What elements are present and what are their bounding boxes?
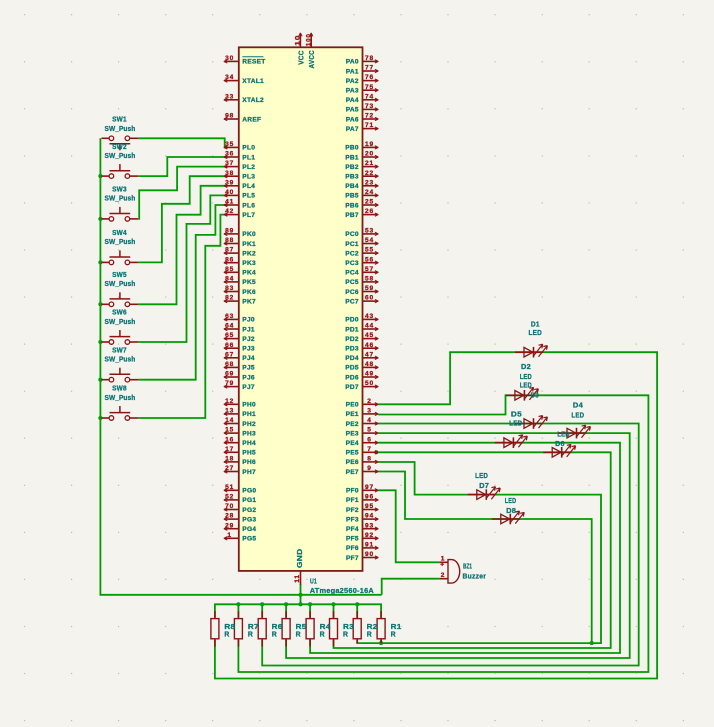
pin 46 (PD3) right xyxy=(363,347,378,349)
svg-text:PE0: PE0 xyxy=(346,402,359,409)
svg-text:SW6: SW6 xyxy=(112,308,127,317)
svg-text:D5: D5 xyxy=(511,410,522,419)
svg-text:PK0: PK0 xyxy=(242,231,256,238)
svg-text:PA2: PA2 xyxy=(346,78,359,85)
switch SW5 SW_Push xyxy=(102,270,139,307)
svg-text:PJ6: PJ6 xyxy=(242,374,255,381)
svg-text:2: 2 xyxy=(367,398,371,405)
pin 57 (PC4) right xyxy=(363,271,378,273)
wire SW6 to PL5 (pin 40) xyxy=(138,195,228,342)
pin 82 (PK7) left xyxy=(225,300,239,302)
pin 96 (PF1) right xyxy=(363,499,378,501)
wire PE6 (pin 8) to D7 to R2/R1 line xyxy=(357,462,601,643)
pin 66 (PJ3) left xyxy=(225,347,239,349)
svg-text:PK4: PK4 xyxy=(242,270,256,277)
LED D6 xyxy=(543,429,575,457)
svg-text:PB1: PB1 xyxy=(345,154,359,161)
svg-text:LED: LED xyxy=(529,328,543,337)
svg-text:PF5: PF5 xyxy=(346,536,359,543)
pin 67 (PJ4) left xyxy=(225,357,239,359)
svg-text:PJ1: PJ1 xyxy=(242,326,255,333)
svg-text:PK6: PK6 xyxy=(242,289,256,296)
LED D7 xyxy=(468,471,500,500)
wire PE0 (pin 2) to D1 to R8 xyxy=(215,352,657,678)
pin 17 (PH5) left xyxy=(225,451,239,453)
svg-text:64: 64 xyxy=(225,323,234,330)
svg-text:PB4: PB4 xyxy=(345,183,359,190)
svg-text:12: 12 xyxy=(225,398,234,405)
pin 13 (PH1) left xyxy=(225,413,239,415)
svg-text:PE3: PE3 xyxy=(346,430,359,437)
svg-text:PB0: PB0 xyxy=(345,145,359,152)
pin 35 (PL0) left xyxy=(225,146,239,148)
svg-text:72: 72 xyxy=(365,113,374,120)
wire PF0 (pin 97) to buzzer pin 1 xyxy=(378,490,439,562)
svg-text:PF6: PF6 xyxy=(346,545,359,552)
pin 45 (PD2) right xyxy=(363,338,378,340)
svg-text:55: 55 xyxy=(365,247,374,254)
pin 98 (AREF) left xyxy=(225,118,239,120)
svg-text:PF1: PF1 xyxy=(346,497,359,504)
svg-text:78: 78 xyxy=(365,55,374,62)
svg-text:5: 5 xyxy=(367,427,371,434)
svg-text:D2: D2 xyxy=(521,362,531,371)
svg-text:37: 37 xyxy=(225,160,234,167)
svg-text:PL0: PL0 xyxy=(242,145,255,152)
pin 65 (PJ2) left xyxy=(225,338,239,340)
resistor R7 xyxy=(234,611,258,647)
svg-text:PL3: PL3 xyxy=(242,174,255,181)
resistor R5 xyxy=(282,611,306,647)
svg-text:VCC: VCC xyxy=(299,50,306,65)
pin 3 (PE1) right xyxy=(363,413,378,415)
svg-text:68: 68 xyxy=(225,361,234,368)
wire resistor top lead x=333.5 xyxy=(333,604,335,617)
svg-text:SW_Push: SW_Push xyxy=(105,237,136,246)
LED D2 xyxy=(506,362,538,401)
pin 85 (PK4) left xyxy=(225,271,239,273)
pin 76 (PA2) right xyxy=(363,80,378,82)
svg-text:56: 56 xyxy=(365,256,374,263)
svg-text:PB5: PB5 xyxy=(345,193,359,200)
svg-text:D6: D6 xyxy=(555,439,565,448)
pin 83 (PK6) left xyxy=(225,291,239,293)
pin 26 (PB7) right xyxy=(363,214,378,216)
svg-text:65: 65 xyxy=(225,332,234,339)
pin 78 (PA0) right xyxy=(363,60,378,62)
svg-text:LED: LED xyxy=(509,419,523,428)
svg-text:3: 3 xyxy=(367,408,371,415)
svg-text:PA3: PA3 xyxy=(346,88,359,95)
svg-text:PA7: PA7 xyxy=(346,126,359,133)
svg-text:35: 35 xyxy=(225,141,234,148)
svg-text:41: 41 xyxy=(225,199,234,206)
wire resistor top lead x=357.2 xyxy=(356,604,358,617)
pin 22 (PB3) right xyxy=(363,175,378,177)
svg-text:PH6: PH6 xyxy=(242,459,256,466)
svg-text:SW3: SW3 xyxy=(112,185,127,194)
svg-text:58: 58 xyxy=(365,276,374,283)
pin 64 (PJ1) left xyxy=(225,328,239,330)
svg-text:77: 77 xyxy=(365,65,374,72)
svg-text:PJ0: PJ0 xyxy=(242,317,255,324)
svg-text:PC4: PC4 xyxy=(345,270,359,277)
svg-text:PD5: PD5 xyxy=(345,365,359,372)
wire R1 bottom tap xyxy=(380,640,382,643)
pin 42 (PL7) left xyxy=(225,214,239,216)
pin 55 (PC2) right xyxy=(363,252,378,254)
pin 58 (PC5) right xyxy=(363,281,378,283)
svg-text:PD1: PD1 xyxy=(345,326,359,333)
svg-text:49: 49 xyxy=(365,371,374,378)
pin 27 (PH7) left xyxy=(225,471,239,473)
svg-text:SW5: SW5 xyxy=(112,270,127,279)
pin 68 (PJ5) left xyxy=(225,366,239,368)
wire resistor top lead x=286.1 xyxy=(285,604,287,617)
svg-text:XTAL1: XTAL1 xyxy=(242,78,264,85)
svg-text:PA6: PA6 xyxy=(346,116,359,123)
pin 20 (PB1) right xyxy=(363,156,378,158)
svg-text:94: 94 xyxy=(365,513,374,520)
svg-text:PB7: PB7 xyxy=(345,212,359,219)
svg-text:PB2: PB2 xyxy=(345,164,359,171)
svg-text:2: 2 xyxy=(441,572,445,579)
pin 34 (XTAL1) left xyxy=(225,80,239,82)
pin 37 (PL2) left xyxy=(225,166,239,168)
svg-text:R: R xyxy=(367,629,373,638)
pin 5 (PE3) right xyxy=(363,432,378,434)
switch SW7 SW_Push xyxy=(102,345,139,382)
svg-text:74: 74 xyxy=(365,93,374,100)
svg-text:PB6: PB6 xyxy=(345,202,359,209)
svg-text:98: 98 xyxy=(225,113,234,120)
svg-text:LED: LED xyxy=(557,429,570,438)
svg-text:43: 43 xyxy=(365,313,374,320)
svg-text:59: 59 xyxy=(365,285,374,292)
svg-text:84: 84 xyxy=(225,276,234,283)
wire PE1 (pin 3) to D2 to R7 xyxy=(238,395,648,672)
switch SW3 SW_Push xyxy=(102,185,139,222)
LED D4 xyxy=(558,400,590,438)
svg-text:73: 73 xyxy=(365,103,374,110)
svg-text:PL7: PL7 xyxy=(242,212,255,219)
svg-text:PA1: PA1 xyxy=(346,68,359,75)
resistor R4 xyxy=(306,611,331,647)
wire SW1 to PL0 (pin 35) xyxy=(138,138,228,147)
svg-text:17: 17 xyxy=(225,446,234,453)
pin 28 (PG3) left xyxy=(225,518,239,520)
svg-text:PL6: PL6 xyxy=(242,202,255,209)
svg-text:PE1: PE1 xyxy=(346,411,359,418)
svg-text:67: 67 xyxy=(225,351,234,358)
svg-text:PF0: PF0 xyxy=(346,488,359,495)
svg-text:PE2: PE2 xyxy=(346,421,359,428)
svg-text:PH1: PH1 xyxy=(242,411,256,418)
svg-text:8: 8 xyxy=(367,456,371,463)
svg-text:PF7: PF7 xyxy=(346,555,359,562)
svg-text:PD6: PD6 xyxy=(345,374,359,381)
pin 63 (PJ0) left xyxy=(225,318,239,320)
svg-text:R: R xyxy=(272,629,278,638)
svg-text:LED: LED xyxy=(520,381,533,390)
wire SW8 to PL7 (pin 42) xyxy=(138,215,228,418)
svg-text:9: 9 xyxy=(367,465,371,472)
svg-text:PJ3: PJ3 xyxy=(242,346,255,353)
wire SW4 to PL3 (pin 38) xyxy=(138,176,228,262)
svg-text:PC0: PC0 xyxy=(345,231,359,238)
svg-text:PJ2: PJ2 xyxy=(242,336,255,343)
svg-text:U1: U1 xyxy=(310,577,317,586)
svg-text:PE6: PE6 xyxy=(346,459,359,466)
pin 6 (PE4) right xyxy=(363,442,378,444)
svg-text:86: 86 xyxy=(225,256,234,263)
svg-text:PE5: PE5 xyxy=(346,450,359,457)
pin 14 (PH2) left xyxy=(225,423,239,425)
svg-text:92: 92 xyxy=(365,532,374,539)
svg-text:PK2: PK2 xyxy=(242,250,256,257)
svg-text:D7: D7 xyxy=(479,481,489,490)
svg-text:71: 71 xyxy=(365,122,374,129)
svg-text:18: 18 xyxy=(225,456,234,463)
pin 70 (PG2) left xyxy=(225,509,239,511)
svg-text:PE4: PE4 xyxy=(346,440,359,447)
svg-text:97: 97 xyxy=(365,484,374,491)
svg-text:66: 66 xyxy=(225,342,234,349)
pin 56 (PC3) right xyxy=(363,262,378,264)
pin 90 (PF7) right xyxy=(363,557,378,559)
wire PE2 (pin 4) to D5 to R6 xyxy=(262,424,639,666)
svg-text:57: 57 xyxy=(365,266,374,273)
svg-text:PK7: PK7 xyxy=(242,298,256,305)
svg-text:PC7: PC7 xyxy=(345,298,359,305)
svg-text:PH7: PH7 xyxy=(242,469,256,476)
svg-text:PG0: PG0 xyxy=(242,488,256,495)
wire resistor top lead x=310.1 xyxy=(309,604,311,617)
svg-text:83: 83 xyxy=(225,285,234,292)
pin 87 (PK2) left xyxy=(225,252,239,254)
svg-text:PA5: PA5 xyxy=(346,107,359,114)
svg-text:PD7: PD7 xyxy=(345,384,359,391)
pin 4 (PE2) right xyxy=(363,423,378,425)
LED D5 xyxy=(509,410,547,429)
LED D1 xyxy=(515,319,547,357)
svg-text:7: 7 xyxy=(367,446,371,453)
pin 38 (PL3) left xyxy=(225,175,239,177)
pin 74 (PA4) right xyxy=(363,99,378,101)
pin 41 (PL6) left xyxy=(225,204,239,206)
pin 2 (PE0) right xyxy=(363,403,378,405)
svg-text:26: 26 xyxy=(365,208,374,215)
wire resistor top lead x=238.4 xyxy=(237,604,239,617)
svg-text:SW_Push: SW_Push xyxy=(105,124,136,133)
svg-text:70: 70 xyxy=(225,503,234,510)
svg-text:15: 15 xyxy=(225,427,234,434)
svg-text:AREF: AREF xyxy=(242,116,261,123)
svg-text:75: 75 xyxy=(365,84,374,91)
pin 48 (PD5) right xyxy=(363,366,378,368)
pin 50 (PD7) right xyxy=(363,386,378,388)
svg-text:6: 6 xyxy=(367,436,371,443)
pin 72 (PA6) right xyxy=(363,118,378,120)
pin 44 (PD1) right xyxy=(363,328,378,330)
svg-text:69: 69 xyxy=(225,371,234,378)
pin 15 (PH3) left xyxy=(225,432,239,434)
svg-text:D4: D4 xyxy=(573,400,584,409)
pin 33 (XTAL2) left xyxy=(225,99,239,101)
wire GND pin to resistor bus xyxy=(300,584,302,604)
svg-text:LED: LED xyxy=(505,496,517,505)
svg-text:22: 22 xyxy=(365,170,374,177)
pin 36 (PL1) left xyxy=(225,156,239,158)
pin 59 (PC6) right xyxy=(363,291,378,293)
svg-text:PH3: PH3 xyxy=(242,430,256,437)
svg-text:R: R xyxy=(248,629,254,638)
svg-text:D3: D3 xyxy=(531,390,539,399)
svg-text:20: 20 xyxy=(365,151,374,158)
svg-text:LED: LED xyxy=(571,410,584,419)
svg-text:RESET: RESET xyxy=(242,59,265,66)
svg-text:93: 93 xyxy=(365,522,374,529)
svg-text:79: 79 xyxy=(225,380,234,387)
svg-text:40: 40 xyxy=(225,189,234,196)
svg-text:AVCC: AVCC xyxy=(309,50,316,69)
svg-text:PC2: PC2 xyxy=(345,250,359,257)
svg-text:11: 11 xyxy=(294,574,301,583)
pin 92 (PF5) right xyxy=(363,537,378,539)
svg-text:SW_Push: SW_Push xyxy=(105,279,136,288)
svg-text:SW_Push: SW_Push xyxy=(105,194,136,203)
svg-text:PG1: PG1 xyxy=(242,497,256,504)
svg-text:XTAL2: XTAL2 xyxy=(242,97,264,104)
svg-text:R: R xyxy=(296,629,302,638)
svg-text:13: 13 xyxy=(225,408,234,415)
buzzer BZ1 xyxy=(439,556,486,583)
wire buzzer pin2 to GND line xyxy=(382,579,440,595)
svg-text:PE7: PE7 xyxy=(346,469,359,476)
svg-text:PD2: PD2 xyxy=(345,336,359,343)
pin 47 (PD4) right xyxy=(363,357,378,359)
junction dots xyxy=(98,174,102,178)
LED D3 xyxy=(495,435,527,448)
svg-text:PD3: PD3 xyxy=(345,346,359,353)
svg-text:50: 50 xyxy=(365,380,374,387)
pin 97 (PF0) right xyxy=(363,489,378,491)
svg-text:PG4: PG4 xyxy=(242,526,256,533)
svg-text:36: 36 xyxy=(225,151,234,158)
svg-text:PL5: PL5 xyxy=(242,193,255,200)
wire PE3 (pin 5) to D4 to R5 xyxy=(286,433,630,658)
switch SW4 SW_Push xyxy=(102,228,139,265)
svg-text:LED: LED xyxy=(475,471,488,480)
svg-text:R: R xyxy=(343,629,349,638)
switch SW8 SW_Push xyxy=(102,384,139,421)
svg-text:53: 53 xyxy=(365,228,374,235)
svg-text:89: 89 xyxy=(225,228,234,235)
pin 93 (PF4) right xyxy=(363,528,378,530)
svg-text:R: R xyxy=(391,629,397,638)
svg-text:87: 87 xyxy=(225,247,234,254)
svg-text:PL2: PL2 xyxy=(242,164,255,171)
svg-text:44: 44 xyxy=(365,323,374,330)
pin 88 (PK1) left xyxy=(225,243,239,245)
pin 73 (PA5) right xyxy=(363,108,378,110)
svg-text:ATmega2560-16A: ATmega2560-16A xyxy=(310,586,375,595)
svg-text:PD0: PD0 xyxy=(345,317,359,324)
svg-text:34: 34 xyxy=(225,74,234,81)
wire SW2 to PL1 (pin 36) xyxy=(138,157,228,176)
resistor R1 xyxy=(377,611,401,643)
svg-text:63: 63 xyxy=(225,313,234,320)
wire PE4 (pin 6) to D3 to R4 xyxy=(310,443,620,653)
pin 8 (PE6) right xyxy=(363,461,378,463)
pin 53 (PC0) right xyxy=(363,233,378,235)
svg-text:R: R xyxy=(320,629,326,638)
pin 30 (RESET) left xyxy=(225,60,239,62)
svg-text:76: 76 xyxy=(365,74,374,81)
svg-text:45: 45 xyxy=(365,332,374,339)
svg-text:25: 25 xyxy=(365,199,374,206)
svg-text:LED: LED xyxy=(520,372,533,381)
svg-text:95: 95 xyxy=(365,503,374,510)
pin 69 (PJ6) left xyxy=(225,376,239,378)
svg-text:PJ5: PJ5 xyxy=(242,365,255,372)
svg-text:88: 88 xyxy=(225,237,234,244)
pin 94 (PF3) right xyxy=(363,518,378,520)
svg-text:PH4: PH4 xyxy=(242,440,256,447)
pin 75 (PA3) right xyxy=(363,89,378,91)
svg-text:14: 14 xyxy=(225,417,234,424)
svg-text:PF3: PF3 xyxy=(346,516,359,523)
svg-text:PC1: PC1 xyxy=(345,241,359,248)
resistor R6 xyxy=(258,611,282,647)
pin 43 (PD0) right xyxy=(363,318,378,320)
svg-text:PG5: PG5 xyxy=(242,536,256,543)
pin 21 (PB2) right xyxy=(363,166,378,168)
svg-text:54: 54 xyxy=(365,237,374,244)
pin 18 (PH6) left xyxy=(225,461,239,463)
pin 40 (PL5) left xyxy=(225,194,239,196)
svg-text:Buzzer: Buzzer xyxy=(463,572,487,581)
svg-text:23: 23 xyxy=(365,179,374,186)
svg-text:SW_Push: SW_Push xyxy=(105,317,136,326)
svg-text:28: 28 xyxy=(225,513,234,520)
pin 86 (PK3) left xyxy=(225,262,239,264)
pin 89 (PK0) left xyxy=(225,233,239,235)
pin 71 (PA7) right xyxy=(363,128,378,130)
svg-text:PB3: PB3 xyxy=(345,174,359,181)
pin 10 (VCC) top xyxy=(299,34,301,48)
svg-text:85: 85 xyxy=(225,266,234,273)
wire resistor top lead x=262.2 xyxy=(261,604,263,617)
svg-text:SW1: SW1 xyxy=(112,114,127,123)
svg-text:29: 29 xyxy=(225,522,234,529)
svg-text:27: 27 xyxy=(225,465,234,472)
pin 11 (GND) bottom xyxy=(300,571,302,585)
svg-text:24: 24 xyxy=(365,189,374,196)
pin 91 (PF6) right xyxy=(363,547,378,549)
svg-text:52: 52 xyxy=(225,494,234,501)
svg-text:PK1: PK1 xyxy=(242,241,256,248)
svg-text:SW2: SW2 xyxy=(112,142,127,151)
pin 9 (PE7) right xyxy=(363,471,378,473)
svg-text:30: 30 xyxy=(225,55,234,62)
svg-text:SW4: SW4 xyxy=(112,228,127,237)
svg-text:PG3: PG3 xyxy=(242,516,256,523)
resistor R2 xyxy=(353,611,377,643)
svg-text:SW_Push: SW_Push xyxy=(105,355,136,364)
svg-text:96: 96 xyxy=(365,494,374,501)
svg-text:PJ4: PJ4 xyxy=(242,355,255,362)
